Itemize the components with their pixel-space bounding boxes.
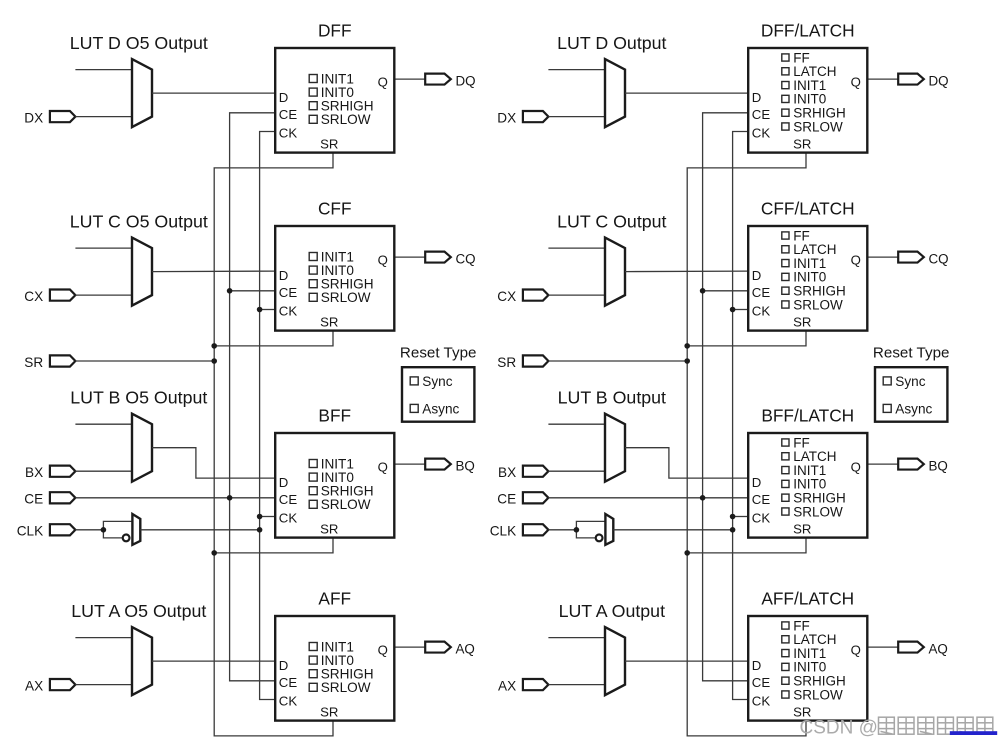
svg-text:CK: CK [279,303,298,318]
svg-text:Sync: Sync [895,374,925,389]
svg-text:BQ: BQ [456,459,475,474]
checkbox SRHIGH (BFF/LATCH) [782,491,846,506]
svg-text:Reset Type: Reset Type [400,345,477,362]
svg-text:SR: SR [793,137,811,152]
svg-text:LATCH: LATCH [793,64,836,79]
svg-text:D: D [752,90,762,105]
junction CK bus / clock mux output [730,527,736,533]
checkbox INIT1 (AFF/LATCH) [782,646,827,661]
junction SR bus / BFF SR [211,550,217,556]
svg-text:SRLOW: SRLOW [793,297,843,312]
svg-text:SR: SR [24,355,43,370]
svg-text:DX: DX [497,110,516,125]
mux LUT C [605,238,625,306]
input pin AX [50,679,76,690]
svg-text:Reset Type: Reset Type [873,345,950,362]
svg-text:SR: SR [320,522,338,537]
wire SR input to SR bus [548,360,687,362]
wire CK bus (vertical) [733,132,747,700]
svg-text:SRHIGH: SRHIGH [793,284,846,299]
checkbox INIT0 (DFF/LATCH) [782,92,827,107]
checkbox SRHIGH (DFF) [309,99,373,114]
svg-text:SR: SR [793,522,811,537]
checkbox INIT1 (BFF) [309,456,354,471]
svg-text:LUT C Output: LUT C Output [557,212,666,232]
input pin CX [50,290,76,301]
junction CLK split [101,527,107,533]
wire AX to mux [548,684,605,686]
checkbox SRLOW (AFF) [309,680,371,695]
mux LUT B [605,414,625,482]
checkbox Async [883,401,932,416]
wire CE bus (vertical) [230,113,274,681]
checkbox LATCH (AFF/LATCH) [782,632,837,647]
checkbox FF (CFF/LATCH) [782,228,810,243]
wire D mux output to DFF D [152,92,274,94]
wire clock mux output to CK bus [613,529,732,531]
svg-text:Async: Async [895,401,932,416]
svg-text:FF: FF [793,435,810,450]
junction CK bus / CFF CK [730,307,736,313]
svg-text:Async: Async [422,401,459,416]
flip-flop BFF/LATCH [748,433,867,538]
checkbox SRLOW (BFF) [309,497,371,512]
svg-text:LUT A O5 Output: LUT A O5 Output [71,601,206,621]
wire SR of BFF/LATCH [687,538,806,553]
wire upper input of B mux [75,423,132,425]
checkbox LATCH (DFF/LATCH) [782,64,837,79]
wire SR of BFF [214,538,333,553]
svg-text:Q: Q [378,643,388,658]
junction CE bus / CFF CE [227,288,233,294]
svg-text:CE: CE [752,285,771,300]
svg-text:AQ: AQ [456,642,475,657]
svg-text:LUT B Output: LUT B Output [558,388,666,408]
svg-text:FF: FF [793,618,810,633]
svg-text:CK: CK [752,510,771,525]
svg-text:SRLOW: SRLOW [321,680,371,695]
svg-text:AX: AX [498,678,516,693]
checkbox SRLOW (BFF/LATCH) [782,504,843,519]
svg-text:LATCH: LATCH [793,242,836,257]
output pin CQ [425,252,451,263]
svg-text:DQ: DQ [456,74,476,89]
svg-text:CFF/LATCH: CFF/LATCH [761,198,855,218]
junction SR bus / CFF SR [684,343,690,349]
checkbox INIT0 (DFF) [309,85,354,100]
wire CK branch to CFF/LATCH [733,309,747,311]
checkbox SRHIGH (AFF) [309,667,373,682]
svg-text:CQ: CQ [456,252,476,267]
svg-text:LATCH: LATCH [793,632,836,647]
svg-text:CE: CE [497,492,516,507]
reset type box [875,367,947,422]
svg-text:SR: SR [497,355,516,370]
svg-text:INIT0: INIT0 [793,660,826,675]
junction CE bus / CE input [700,495,706,501]
wire CLK input [548,529,576,531]
svg-text:CE: CE [24,492,43,507]
junction CK bus / BFF CK [257,514,263,520]
wire B mux output to BFF/LATCH D (jogged) [625,448,747,478]
wire A mux output to AFF/LATCH D [625,660,747,662]
svg-text:CE: CE [279,675,298,690]
svg-text:SRLOW: SRLOW [793,119,843,134]
wire CE input to BFF CE [75,497,274,499]
flip-flop CFF/LATCH [748,226,867,331]
wire Q output of AFF/LATCH [869,646,899,648]
svg-text:Q: Q [851,460,861,475]
svg-text:BFF: BFF [318,405,351,425]
wire CE branch to CFF/LATCH [703,290,747,292]
wire DX to mux [548,116,605,118]
wire CK branch to BFF/LATCH [733,516,747,518]
svg-text:CE: CE [752,675,771,690]
svg-text:SRLOW: SRLOW [793,687,843,702]
output pin BQ [425,459,451,470]
svg-text:BX: BX [498,465,516,480]
svg-text:CK: CK [279,510,298,525]
svg-text:LUT D Output: LUT D Output [557,33,666,53]
svg-text:CLK: CLK [490,524,516,539]
wire Q output of BFF [396,463,426,465]
checkbox SRHIGH (BFF) [309,484,373,499]
svg-text:D: D [279,90,289,105]
svg-text:SRHIGH: SRHIGH [793,491,846,506]
input pin SR [523,355,549,366]
checkbox INIT1 (AFF) [309,639,354,654]
checkbox INIT0 (CFF/LATCH) [782,270,827,285]
svg-text:BFF/LATCH: BFF/LATCH [761,405,854,425]
svg-text:CK: CK [279,693,298,708]
input pin SR [50,355,76,366]
wire Q output of DFF/LATCH [869,78,899,80]
svg-text:CE: CE [752,107,771,122]
wire upper input of C mux [75,247,132,249]
svg-text:FF: FF [793,50,810,65]
checkbox Sync [883,374,926,389]
input pin CLK [50,524,76,535]
checkbox FF (AFF/LATCH) [782,618,810,633]
junction CK bus / clock mux output [257,527,263,533]
svg-text:LUT C O5 Output: LUT C O5 Output [70,212,208,232]
svg-text:CFF: CFF [318,198,352,218]
wire BX to mux [548,470,605,472]
mux LUT D [132,59,152,127]
checkbox INIT1 (CFF) [309,249,354,264]
wire SR of CFF/LATCH [687,331,806,346]
wire CLK split branches [576,521,605,538]
svg-text:CE: CE [752,492,771,507]
svg-text:D: D [279,475,289,490]
svg-text:CX: CX [497,289,516,304]
wire DX to mux [75,116,132,118]
wire CX to mux [75,294,132,296]
svg-text:AQ: AQ [929,642,948,657]
input pin BX [50,466,76,477]
input pin CE [50,492,76,503]
svg-text:SRLOW: SRLOW [321,112,371,127]
wire CK bus (vertical) [260,132,274,700]
wire upper input of D mux [75,69,132,71]
input pin DX [50,111,76,122]
junction SR bus / BFF SR [684,550,690,556]
svg-text:SRLOW: SRLOW [321,290,371,305]
svg-text:D: D [279,658,289,673]
svg-text:DQ: DQ [929,74,949,89]
svg-text:Sync: Sync [422,374,452,389]
svg-text:INIT1: INIT1 [793,463,826,478]
wire CLK input [75,529,103,531]
reset type box [402,367,474,422]
clock polarity mux [132,514,140,545]
junction SR bus / SR input [211,358,217,364]
flip-flop BFF [275,433,394,538]
wire upper input of C mux [548,247,605,249]
checkbox SRLOW (DFF/LATCH) [782,119,843,134]
svg-text:LATCH: LATCH [793,449,836,464]
svg-text:D: D [752,658,762,673]
wire Q output of CFF [396,256,426,258]
svg-text:SRHIGH: SRHIGH [793,674,846,689]
svg-text:BX: BX [25,465,43,480]
checkbox SRHIGH (AFF/LATCH) [782,674,846,689]
flip-flop DFF/LATCH [748,48,867,153]
wire upper input of D mux [548,69,605,71]
wire Q output of AFF [396,646,426,648]
svg-text:D: D [752,475,762,490]
svg-text:CK: CK [752,125,771,140]
checkbox Sync [410,374,453,389]
output pin DQ [425,74,451,85]
svg-text:CK: CK [279,125,298,140]
mux LUT A [132,627,152,695]
svg-text:Q: Q [378,253,388,268]
wire Q output of DFF [396,78,426,80]
inverter bubble on clock mux [596,535,603,542]
wire Q output of CFF/LATCH [869,256,899,258]
mux LUT A [605,627,625,695]
junction CLK split [574,527,580,533]
checkbox INIT1 (BFF/LATCH) [782,463,827,478]
svg-text:INIT1: INIT1 [793,256,826,271]
wire CE branch to CFF [230,290,274,292]
checkbox LATCH (BFF/LATCH) [782,449,837,464]
junction CE bus / CFF CE [700,288,706,294]
checkbox Async [410,401,459,416]
checkbox FF (DFF/LATCH) [782,50,810,65]
wire SR input to SR bus [75,360,214,362]
svg-text:D: D [279,268,289,283]
checkbox SRLOW (AFF/LATCH) [782,687,843,702]
svg-text:CE: CE [279,107,298,122]
flip-flop DFF [275,48,394,153]
svg-text:SR: SR [793,315,811,330]
input pin CLK [523,524,549,535]
svg-text:Q: Q [378,460,388,475]
checkbox INIT0 (BFF) [309,470,354,485]
svg-text:CK: CK [752,693,771,708]
clock polarity mux [605,514,613,545]
svg-text:Q: Q [851,253,861,268]
checkbox INIT1 (DFF) [309,71,354,86]
output pin AQ [425,642,451,653]
wire upper input of B mux [548,423,605,425]
watermark CSDN link underline [950,731,997,735]
wire B mux output to BFF D (jogged) [152,448,274,478]
wire CK branch to BFF [260,516,274,518]
input pin AX [523,679,549,690]
wire C mux output to CFF D [152,270,274,273]
checkbox INIT1 (CFF/LATCH) [782,256,827,271]
input pin DX [523,111,549,122]
checkbox INIT1 (DFF/LATCH) [782,78,827,93]
svg-text:Q: Q [378,75,388,90]
checkbox SRHIGH (DFF/LATCH) [782,106,846,121]
svg-text:Q: Q [851,643,861,658]
output pin CQ [898,252,924,263]
mux LUT C [132,238,152,306]
svg-text:DFF/LATCH: DFF/LATCH [761,20,855,40]
checkbox SRLOW (DFF) [309,112,371,127]
inverter bubble on clock mux [123,535,130,542]
junction CE bus / CE input [227,495,233,501]
svg-text:FF: FF [793,228,810,243]
wire BX to mux [75,470,132,472]
svg-text:AX: AX [25,678,43,693]
svg-text:CLK: CLK [17,524,43,539]
svg-text:INIT0: INIT0 [793,270,826,285]
wire CK branch to CFF [260,309,274,311]
svg-text:SR: SR [320,137,338,152]
output pin AQ [898,642,924,653]
output pin DQ [898,74,924,85]
wire D mux output to DFF/LATCH D [625,92,747,94]
wire CX to mux [548,294,605,296]
wire upper input of A mux [75,637,132,639]
junction SR bus / CFF SR [211,343,217,349]
checkbox INIT0 (AFF) [309,653,354,668]
svg-text:CX: CX [24,289,43,304]
wire AX to mux [75,684,132,686]
checkbox SRHIGH (CFF) [309,277,373,292]
wire CLK split branches [103,521,132,538]
checkbox INIT0 (CFF) [309,263,354,278]
junction CK bus / BFF CK [730,514,736,520]
svg-text:SRLOW: SRLOW [793,504,843,519]
svg-text:CK: CK [752,303,771,318]
wire SR of CFF [214,331,333,346]
svg-text:CE: CE [279,285,298,300]
checkbox INIT0 (BFF/LATCH) [782,477,827,492]
wire CE input to BFF CE [548,497,747,499]
flip-flop AFF [275,616,394,721]
mux LUT B [132,414,152,482]
svg-text:LUT D O5 Output: LUT D O5 Output [70,33,208,53]
svg-text:SRHIGH: SRHIGH [793,106,846,121]
wire upper input of A mux [548,637,605,639]
wire CE bus (vertical) [703,113,747,681]
svg-text:CQ: CQ [929,252,949,267]
wire clock mux output to CK bus [140,529,259,531]
svg-text:SRLOW: SRLOW [321,497,371,512]
input pin CX [523,290,549,301]
flip-flop AFF/LATCH [748,616,867,721]
checkbox SRHIGH (CFF/LATCH) [782,284,846,299]
svg-text:INIT1: INIT1 [793,78,826,93]
wire SR bus (vertical) [687,153,806,736]
checkbox LATCH (CFF/LATCH) [782,242,837,257]
svg-text:Q: Q [851,75,861,90]
svg-text:CE: CE [279,492,298,507]
svg-text:CSDN @: CSDN @ [800,718,878,739]
junction SR bus / SR input [684,358,690,364]
svg-text:BQ: BQ [929,459,948,474]
checkbox SRLOW (CFF) [309,290,371,305]
wire SR bus (vertical) [214,153,333,736]
svg-text:SR: SR [320,705,338,720]
svg-text:DFF: DFF [318,20,352,40]
junction CK bus / CFF CK [257,307,263,313]
svg-text:INIT0: INIT0 [793,92,826,107]
input pin CE [523,492,549,503]
svg-text:D: D [752,268,762,283]
checkbox SRLOW (CFF/LATCH) [782,297,843,312]
flip-flop CFF [275,226,394,331]
svg-text:INIT0: INIT0 [793,477,826,492]
svg-text:AFF: AFF [318,588,351,608]
checkbox INIT0 (AFF/LATCH) [782,660,827,675]
svg-text:SR: SR [320,315,338,330]
svg-text:INIT1: INIT1 [793,646,826,661]
wire Q output of BFF/LATCH [869,463,899,465]
checkbox FF (BFF/LATCH) [782,435,810,450]
wire C mux output to CFF/LATCH D [625,270,747,273]
svg-text:DX: DX [24,110,43,125]
wire A mux output to AFF D [152,660,274,662]
svg-text:LUT A Output: LUT A Output [559,601,665,621]
svg-text:LUT B O5 Output: LUT B O5 Output [70,388,207,408]
svg-text:AFF/LATCH: AFF/LATCH [761,588,854,608]
output pin BQ [898,459,924,470]
input pin BX [523,466,549,477]
mux LUT D [605,59,625,127]
watermark CJK glyph blocks [879,717,993,734]
